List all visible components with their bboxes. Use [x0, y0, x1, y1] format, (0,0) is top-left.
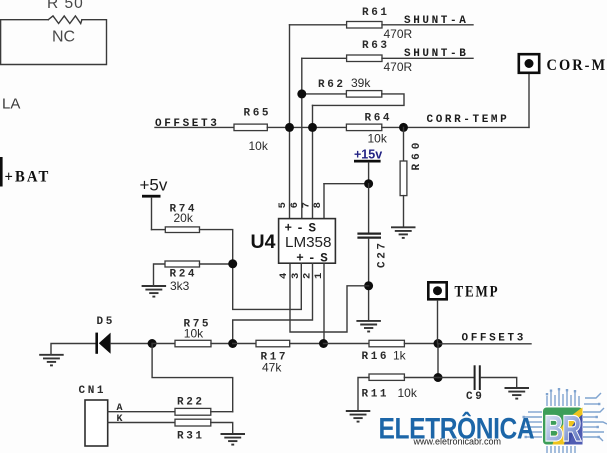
junction R74/R24 node [228, 259, 237, 268]
svg-text:S: S [309, 221, 317, 235]
svg-text:K: K [117, 414, 123, 425]
wire CN1 pin A to R22 [108, 411, 175, 413]
svg-text:R65: R65 [244, 108, 272, 120]
svg-text:+15v: +15v [354, 147, 382, 161]
svg-text:20k: 20k [174, 211, 194, 225]
svg-text:R62: R62 [318, 79, 346, 91]
resistor R50 NC box [0, 0, 107, 65]
svg-text:10k: 10k [184, 326, 204, 340]
wire R11 to node [404, 377, 438, 379]
wire TEMP to node [437, 301, 439, 344]
connector CN1 [79, 385, 123, 446]
wire R61 row [290, 24, 347, 26]
wire COR-M drop [528, 74, 530, 127]
svg-text:www.eletronicabr.com: www.eletronicabr.com [413, 436, 502, 446]
op-amp U4 LM358 [251, 219, 336, 266]
svg-text:3: 3 [290, 273, 302, 279]
wire OFFSET3 right [438, 343, 531, 345]
svg-text:D5: D5 [97, 316, 115, 328]
resistor R62 [318, 76, 382, 97]
wire R62 row [302, 93, 347, 95]
wire node to R17 [233, 343, 256, 345]
svg-text:47k: 47k [262, 361, 282, 375]
svg-text:LM358: LM358 [285, 234, 331, 251]
ground (R60) [391, 227, 416, 238]
resistor R22 [175, 397, 211, 416]
svg-text:U4: U4 [251, 231, 276, 253]
svg-text:6: 6 [289, 202, 301, 208]
wire +15v node to C27 [368, 184, 370, 233]
svg-text:1k: 1k [393, 348, 407, 362]
junction R65/R64 node [285, 123, 294, 132]
resistor R11 [362, 374, 418, 400]
svg-text:10k: 10k [398, 386, 418, 400]
wire R63 to SHUNT-B [382, 57, 473, 59]
svg-text:5: 5 [277, 202, 289, 208]
wire R75 to node [211, 343, 233, 345]
junction R64/R60 node [399, 123, 408, 132]
svg-text:BR: BR [545, 409, 581, 449]
svg-text:470R: 470R [384, 27, 413, 41]
wire vertical pin7 column [312, 105, 314, 218]
ground (C27) [356, 321, 381, 332]
junction R11/C9 node [434, 373, 443, 382]
junction +15v node [364, 179, 373, 188]
wire D5 node down to R22 [152, 344, 233, 412]
svg-text:39k: 39k [351, 76, 371, 90]
svg-text:R60: R60 [411, 139, 423, 171]
svg-text:7: 7 [301, 202, 313, 208]
svg-text:SHUNT-A: SHUNT-A [404, 15, 468, 27]
svg-text:CORR-TEMP: CORR-TEMP [427, 114, 510, 126]
svg-text:OFFSET3: OFFSET3 [462, 333, 526, 345]
diode D5 [95, 316, 115, 354]
wire R22 to vertical [211, 411, 233, 413]
capacitor C27 [357, 234, 388, 321]
wire OFFSET3 to R65 [155, 126, 234, 128]
wire R62 return to pin7 column [313, 94, 405, 106]
resistor R75 [175, 318, 211, 346]
wire vertical pin8 column [323, 184, 325, 219]
ground (D5) [39, 355, 64, 366]
resistor R63 [347, 40, 413, 74]
power +15v [354, 147, 382, 183]
svg-text:-: - [308, 252, 316, 266]
wire R61 to SHUNT-A [382, 24, 473, 26]
pad TEMP [428, 282, 499, 301]
wire R16 to node [404, 343, 438, 345]
junction D5 node [148, 339, 157, 348]
wire R64 to CORR-TEMP [382, 126, 529, 128]
wire vertical pin5 column (R61 corner down to U4) [289, 25, 291, 219]
svg-text:C9: C9 [466, 391, 484, 403]
svg-text:R64: R64 [365, 112, 393, 124]
svg-text:3k3: 3k3 [170, 279, 190, 293]
svg-text:10k: 10k [249, 139, 269, 153]
wire pin3 to R74/R24 node [233, 263, 302, 309]
wire R65 to node [267, 126, 289, 128]
ground (C9) [505, 388, 530, 399]
wire pin4 to C27 node [290, 263, 369, 332]
wire R74 to node [200, 230, 233, 264]
ground (R31) [221, 434, 246, 445]
svg-text:R 50: R 50 [47, 0, 84, 12]
wire node to node below [437, 344, 439, 378]
wire R11 left to ground [358, 378, 369, 412]
svg-text:SHUNT-B: SHUNT-B [404, 48, 468, 60]
wire node to C9 [438, 377, 474, 379]
wire CN1 pin K to R31 [108, 422, 175, 424]
pad COR-M [519, 54, 607, 74]
svg-text:-: - [296, 221, 304, 235]
svg-text:+: + [296, 252, 304, 266]
svg-text:4: 4 [278, 273, 290, 279]
ground (R24) [142, 286, 167, 297]
svg-text:NC: NC [52, 29, 75, 46]
wire +15v node to pin8 [324, 183, 369, 185]
svg-text:R61: R61 [362, 7, 390, 19]
svg-text:+: + [285, 221, 293, 235]
capacitor C9 [466, 365, 484, 403]
resistor R74 [165, 204, 199, 233]
power +5v [140, 176, 168, 230]
resistor R16 [362, 340, 407, 363]
resistor R31 [175, 419, 211, 443]
wire R24 to node [200, 263, 233, 265]
junction pin7/R64 node [308, 123, 317, 132]
svg-text:470R: 470R [384, 60, 413, 74]
junction pin1 node [319, 339, 328, 348]
wire vertical pin6 column [301, 58, 303, 218]
junction R75/R17 node [228, 339, 237, 348]
resistor R64 [346, 112, 392, 145]
resistor R24 [165, 261, 200, 293]
logo BR chip [379, 388, 607, 453]
wire node to R16 [324, 343, 370, 345]
wire R17 to node [290, 343, 324, 345]
wire C9 to ground [481, 378, 517, 389]
svg-text:R22: R22 [177, 397, 205, 409]
svg-text:C27: C27 [377, 240, 389, 268]
wire R64 row [290, 126, 347, 128]
svg-text:+BAT: +BAT [5, 169, 51, 185]
svg-text:R16: R16 [362, 351, 390, 363]
svg-text:CN1: CN1 [79, 385, 107, 397]
svg-text:+5v: +5v [140, 176, 168, 195]
svg-text:R11: R11 [362, 388, 390, 400]
resistor R17 [256, 340, 290, 374]
wire D5 to node [111, 343, 153, 345]
svg-text:TEMP: TEMP [455, 284, 500, 301]
svg-text:COR-M: COR-M [547, 57, 607, 74]
svg-text:R31: R31 [177, 431, 205, 443]
junction on R62 row [297, 89, 306, 98]
wire R31 to ground [211, 423, 233, 435]
svg-text:10k: 10k [368, 131, 388, 145]
svg-text:LA: LA [2, 96, 20, 113]
resistor R65 [234, 108, 271, 154]
junction C27 bottom node [364, 281, 373, 290]
node +BAT pad [0, 157, 50, 187]
resistor R60 [400, 127, 423, 227]
junction TEMP node [434, 339, 443, 348]
resistor R61 [347, 7, 413, 41]
svg-text:8: 8 [312, 202, 324, 208]
wire ground to D5 [51, 344, 95, 355]
wire pin2 to R75/R17 node [233, 263, 313, 343]
svg-text:R63: R63 [362, 40, 390, 52]
wire ground to R24 [154, 264, 166, 286]
wire R63 row [302, 57, 347, 59]
wire +5v to R74 [152, 229, 166, 231]
wire node to R75 [152, 343, 175, 345]
ground (R11) [346, 411, 371, 422]
wire pin1 to R17/R16 node [323, 263, 325, 343]
